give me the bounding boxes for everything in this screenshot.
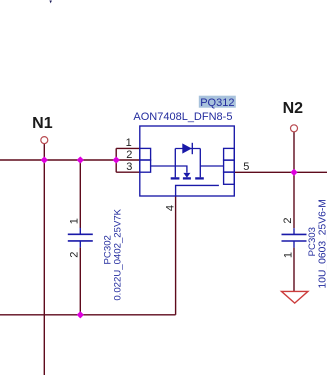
svg-text:N1: N1	[32, 115, 53, 132]
svg-text:1: 1	[282, 252, 294, 258]
svg-text:10U_0603_25V6-M: 10U_0603_25V6-M	[317, 199, 327, 288]
svg-text:1: 1	[68, 218, 80, 224]
svg-text:PQ312: PQ312	[200, 97, 234, 109]
svg-text:4: 4	[164, 205, 176, 211]
svg-text:1: 1	[126, 137, 132, 149]
svg-text:AON7408L_DFN8-5: AON7408L_DFN8-5	[133, 111, 232, 123]
svg-text:2: 2	[282, 217, 294, 223]
svg-text:0.022U_0402_25V7K: 0.022U_0402_25V7K	[113, 208, 124, 300]
svg-text:N2: N2	[283, 100, 304, 117]
svg-text:3: 3	[126, 161, 132, 173]
svg-text:2: 2	[68, 252, 80, 258]
svg-text:5: 5	[243, 161, 249, 173]
svg-text:2: 2	[126, 149, 132, 161]
